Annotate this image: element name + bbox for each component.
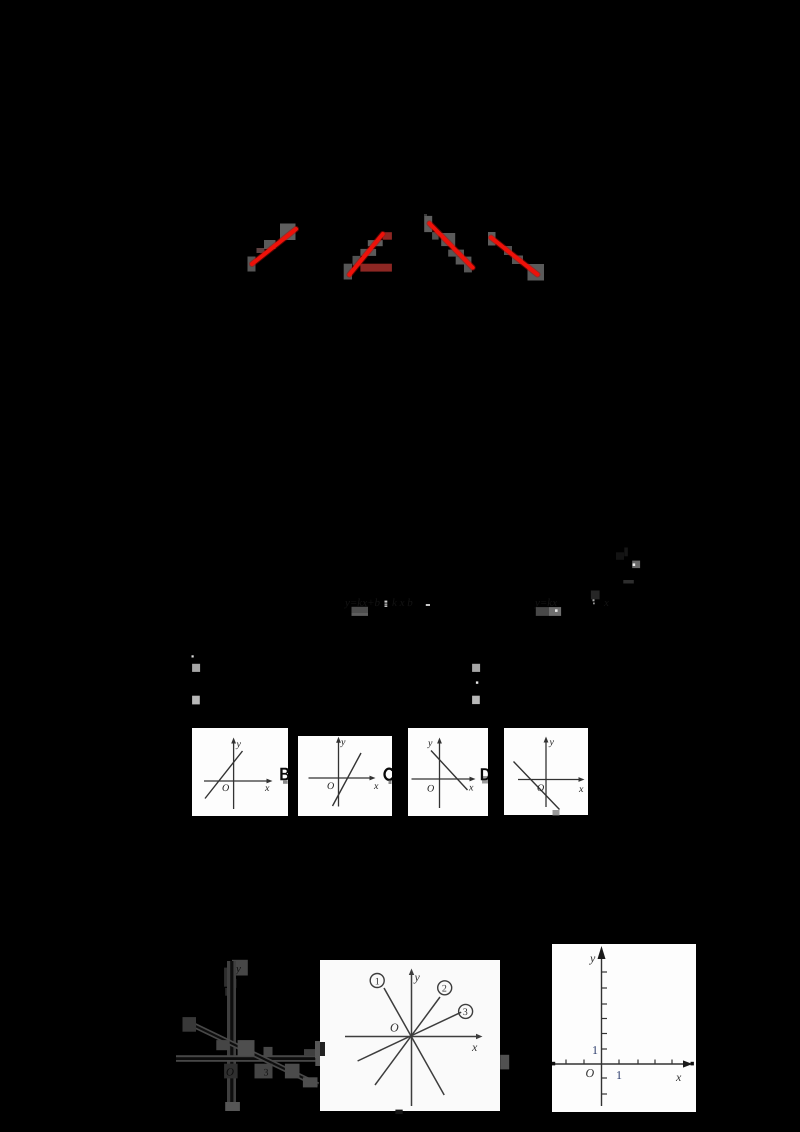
red stroke 1 (rising): [252, 229, 296, 264]
y-axis: [411, 972, 413, 1106]
svg-text:x: x: [578, 784, 584, 795]
grey sliver right of middle box: [500, 1055, 509, 1070]
edge dots on x-axis: [552, 1062, 555, 1066]
box A y-axis: [233, 741, 235, 809]
svg-text:x: x: [471, 1040, 478, 1054]
small bright marks: [385, 601, 388, 603]
svg-text:3: 3: [463, 1007, 468, 1018]
x-axis bar: [176, 1055, 328, 1062]
y-axis: [601, 951, 603, 1106]
circled 3: [459, 1004, 473, 1018]
svg-text:O: O: [537, 783, 544, 794]
circled 2: [438, 981, 452, 995]
svg-text:1: 1: [592, 1043, 598, 1057]
dark sliver top right: [623, 580, 634, 584]
red stroke 4 (falling): [491, 238, 538, 275]
svg-text:y: y: [549, 737, 555, 748]
circled 1: [370, 974, 384, 988]
dark block with specks: [591, 591, 600, 600]
dark glyph on left edge: [315, 1041, 320, 1058]
svg-text:x: x: [373, 781, 379, 792]
svg-text:2: 2: [442, 984, 447, 995]
white dot on block: [555, 609, 558, 612]
svg-text:1: 1: [375, 976, 380, 987]
svg-text:O: O: [586, 1066, 595, 1080]
bottom grey block: [225, 1102, 240, 1111]
diagonal line: [186, 1022, 318, 1086]
grey fraction blocks: [536, 607, 549, 616]
svg-text:O: O: [390, 1021, 399, 1035]
tiny speck: [424, 214, 427, 216]
option letter B: [280, 768, 289, 780]
svg-text:O: O: [222, 783, 229, 794]
svg-text:x: x: [675, 1070, 682, 1084]
svg-text:y: y: [589, 951, 596, 965]
red stroke 2 (rising): [349, 234, 382, 275]
left column grey square 2: [192, 696, 200, 705]
grey stair blocks along diagonal: [183, 1017, 197, 1032]
box B y-axis: [338, 740, 340, 807]
svg-text:y: y: [427, 738, 433, 749]
box D x-axis: [518, 779, 581, 781]
dark red bar lower of stroke 2: [360, 264, 392, 272]
svg-text:O: O: [427, 784, 434, 795]
svg-text:3: 3: [264, 1068, 269, 1079]
grey blocks under stroke 4: [488, 232, 544, 281]
line 3 shallow positive: [358, 1012, 462, 1061]
faint marks above: [616, 552, 624, 560]
grey blocks under stroke 2: [344, 240, 383, 279]
x-axis: [552, 1063, 688, 1065]
O label: [224, 1064, 238, 1079]
y ticks: [602, 972, 608, 1094]
x-axis: [345, 1036, 479, 1038]
grey block beside axis top: [224, 968, 234, 987]
svg-text:y: y: [236, 739, 242, 750]
y label grey block: [232, 960, 248, 976]
box C line k<0 b>0: [431, 751, 468, 791]
svg-text:x: x: [264, 783, 270, 794]
vertical axis bar: [227, 961, 236, 1104]
svg-text:x: x: [603, 597, 609, 609]
left column grey square 1: [192, 664, 200, 672]
grey fraction block: [352, 607, 369, 616]
svg-text:x: x: [468, 783, 474, 794]
option letter C: [385, 769, 393, 780]
grey blocks under stroke 1: [248, 224, 296, 272]
svg-text:1: 1: [616, 1068, 622, 1082]
box B line k>0 b<0: [333, 753, 362, 806]
x ticks: [566, 1060, 672, 1065]
box A x-axis: [204, 780, 269, 782]
grey block above x-axis right: [304, 1049, 320, 1056]
grey square with white dot: [632, 561, 640, 569]
svg-text:y: y: [414, 970, 421, 984]
box A line k>0 b>0: [205, 751, 243, 799]
option letter D: [482, 776, 488, 784]
box C x-axis: [412, 778, 473, 780]
box B x-axis: [309, 777, 373, 779]
dark dot below middle box: [395, 1110, 402, 1115]
dark red bar upper of stroke 2: [383, 232, 392, 240]
line 2 steep positive: [375, 997, 440, 1085]
right column grey square 2: [472, 696, 480, 704]
svg-text:O: O: [327, 781, 334, 792]
axis arrow smudge: [230, 979, 237, 988]
box D y-axis: [545, 740, 547, 807]
grey block at x-arrow: [315, 1047, 327, 1066]
left column white dot: [192, 655, 194, 657]
box D line k<0 b<0: [514, 762, 560, 810]
svg-text:O: O: [226, 1067, 234, 1079]
right column grey square 1: [472, 664, 480, 672]
line 1 steep negative: [384, 988, 444, 1095]
grey smudge bottom: [553, 810, 560, 815]
white dash: [426, 604, 430, 606]
svg-text:y: y: [340, 737, 346, 748]
right column white dot: [476, 681, 478, 683]
svg-text:k x b: k x b: [392, 597, 413, 609]
red stroke 3 (falling): [429, 223, 472, 267]
grey blocks under stroke 3: [424, 216, 472, 273]
box C y-axis: [439, 741, 441, 808]
